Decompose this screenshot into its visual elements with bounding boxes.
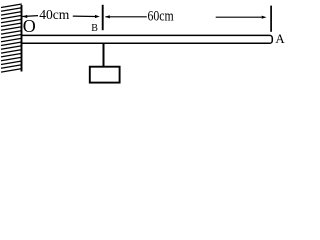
svg-text:B: B [91,23,98,34]
svg-text:A: A [275,32,285,46]
svg-text:60cm: 60cm [148,9,174,25]
svg-text:40cm: 40cm [39,8,69,23]
svg-text:O: O [23,16,36,36]
